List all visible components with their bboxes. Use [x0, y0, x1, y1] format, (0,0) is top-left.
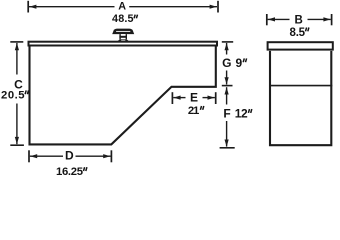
svg-text:8.5: 8.5 — [290, 27, 306, 39]
svg-text:20.5: 20.5 — [1, 89, 24, 101]
svg-text:16.25: 16.25 — [56, 166, 83, 178]
svg-text:48.5: 48.5 — [112, 13, 134, 25]
svg-text:9: 9 — [236, 56, 243, 70]
svg-text:A: A — [118, 1, 126, 13]
svg-text:21: 21 — [188, 105, 199, 117]
svg-text:12: 12 — [235, 107, 248, 121]
svg-text:D: D — [65, 149, 74, 163]
svg-text:F: F — [223, 107, 230, 121]
svg-text:E: E — [190, 90, 198, 104]
svg-text:B: B — [295, 14, 303, 26]
svg-text:G: G — [222, 56, 231, 70]
